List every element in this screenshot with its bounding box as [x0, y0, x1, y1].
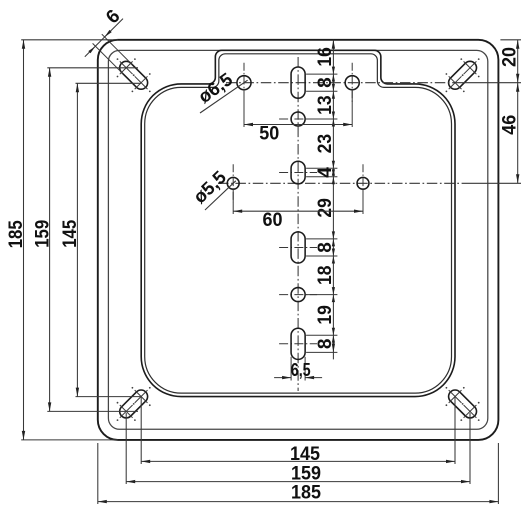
hole 5.5 right [357, 177, 369, 189]
dim 159 bottom line [126, 481, 470, 483]
center line circle C2 [279, 294, 317, 296]
svg-text:13: 13 [315, 95, 336, 115]
center line row middle holes [218, 182, 470, 184]
svg-text:50: 50 [259, 123, 279, 144]
svg-text:185: 185 [291, 483, 321, 504]
svg-text:18: 18 [315, 266, 336, 286]
dim 159 left line [49, 68, 51, 412]
dim 46 line [517, 83, 519, 184]
dim 185 left extension bottom [21, 439, 118, 441]
vertical center line [297, 57, 299, 391]
svg-text:16: 16 [315, 47, 336, 67]
dim 159 left extension top [47, 67, 138, 69]
dim 60 extension left [232, 189, 234, 214]
dim 145 bottom extension right [454, 398, 456, 465]
center line row top holes [226, 82, 461, 84]
recess outline outer line [141, 50, 455, 396]
dim 159 bottom extension right [469, 413, 471, 484]
center line hole 6.5 right [351, 63, 353, 103]
chain arrows [332, 40, 335, 49]
dim 145 left line [76, 83, 78, 396]
circle C2 (6.5) [291, 288, 305, 302]
center line hole 5.5 left [232, 164, 234, 202]
corner slot bottom-left [120, 390, 148, 418]
dim 159 bottom extension left [125, 413, 127, 484]
hole 6.5 right [345, 76, 359, 90]
svg-text:60: 60 [263, 210, 283, 231]
svg-text:145: 145 [60, 219, 81, 247]
svg-text:159: 159 [32, 220, 53, 248]
chain end arrow [332, 343, 335, 352]
dim 185 bottom extension left [97, 443, 99, 504]
svg-text:8: 8 [315, 339, 336, 350]
recess outline inner line [145, 54, 452, 393]
label dia 6.5 leader [200, 80, 248, 113]
slot S4 (6.5x14.5) [291, 328, 305, 359]
circle C1 (6.5) [291, 112, 305, 126]
center line circle C1 [279, 118, 317, 120]
dim 50 line [244, 124, 352, 126]
dim 60 line [233, 210, 363, 212]
center line slot S3 [279, 247, 317, 249]
dim 185 bottom extension right [497, 443, 499, 504]
dim 185 left extension top [21, 39, 118, 41]
dim 145 bottom extension left [140, 398, 142, 465]
dim 145 bottom line [141, 460, 455, 462]
dim 159 left extension bottom [47, 410, 138, 412]
chain dimension line [332, 40, 334, 360]
dim 145 left extension top [76, 82, 142, 84]
svg-text:23: 23 [315, 134, 336, 154]
center line slot S4 [279, 343, 317, 345]
dim 6 slot width [85, 19, 123, 57]
extension line row1 right [461, 82, 521, 84]
label dia 5.5 leader [205, 181, 236, 210]
hole 6.5 left [237, 76, 251, 90]
hole 5.5 left [227, 177, 239, 189]
dim 20 extension top [500, 39, 521, 41]
svg-text:29: 29 [315, 198, 336, 218]
dim 20 line [517, 40, 519, 83]
corner slot top-right [449, 61, 477, 89]
flange offset contour [108, 50, 487, 429]
svg-text:6,5: 6,5 [291, 360, 311, 380]
svg-text:145: 145 [290, 444, 320, 465]
dim 185 left line [23, 40, 25, 440]
svg-text:4: 4 [315, 167, 336, 178]
svg-text:19: 19 [315, 305, 336, 325]
svg-text:46: 46 [500, 115, 521, 135]
corner slot top-left [120, 61, 148, 89]
dim 6.5 extension left [290, 357, 292, 381]
extension line row2 right [470, 182, 521, 184]
corner slot bottom-right [449, 390, 477, 418]
svg-text:20: 20 [500, 47, 521, 67]
dim 145 left extension bottom [76, 396, 142, 398]
chain extension lines [306, 73, 337, 75]
outer plate edge [98, 40, 499, 440]
slot S2 (6.5x10.5) [291, 161, 305, 184]
dim 50 extension left [243, 89, 245, 127]
dim 185 bottom line [98, 501, 499, 503]
slot S1 (6.5x14.5) [291, 67, 305, 98]
dim 50 extension right [351, 89, 353, 127]
dim 6.5 line [274, 377, 291, 379]
slot S3 (6.5x14.5) [291, 232, 305, 263]
center line hole 6.5 left [243, 63, 245, 103]
center line slot S2 [279, 172, 317, 174]
dim 60 extension right [362, 189, 364, 214]
svg-text:8: 8 [315, 77, 336, 88]
svg-text:8: 8 [315, 242, 336, 253]
svg-text:159: 159 [291, 463, 321, 484]
dim 6.5 extension right [304, 357, 306, 381]
svg-text:185: 185 [6, 220, 27, 248]
center line hole 5.5 right [362, 164, 364, 202]
